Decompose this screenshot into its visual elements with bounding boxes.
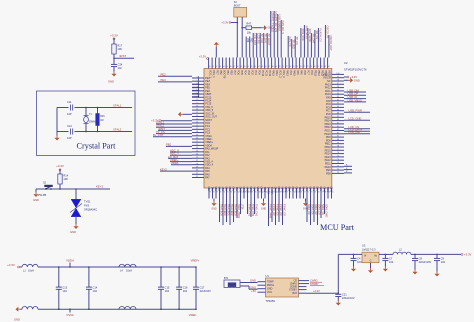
svg-text:220uF/16V: 220uF/16V: [342, 296, 355, 300]
svg-text:KEY1: KEY1: [96, 185, 104, 189]
svg-text:VDDA: VDDA: [171, 161, 179, 165]
svg-text:C16: C16: [183, 285, 188, 289]
svg-text:70: 70: [278, 66, 280, 68]
svg-text:32: 32: [196, 176, 198, 178]
svg-text:10K: 10K: [63, 177, 68, 181]
svg-text:PA10: PA10: [293, 70, 296, 76]
svg-text:104: 104: [441, 260, 446, 264]
svg-text:10k: 10k: [247, 30, 252, 34]
svg-text:PC8: PC8: [326, 106, 331, 109]
svg-text:TIM4_CH1: TIM4_CH1: [248, 204, 251, 217]
svg-text:87: 87: [337, 116, 339, 118]
svg-text:BL_CNT: BL_CNT: [153, 133, 164, 137]
svg-text:63: 63: [254, 66, 256, 68]
svg-text:73: 73: [289, 66, 291, 68]
svg-text:GND: GND: [261, 208, 267, 211]
svg-text:USB_PWR: USB_PWR: [349, 109, 362, 113]
svg-text:PB12: PB12: [325, 126, 332, 129]
svg-text:75: 75: [337, 156, 339, 158]
svg-text:78: 78: [337, 146, 339, 148]
svg-text:SWO_JTDO: SWO_JTDO: [237, 204, 240, 218]
svg-text:PC0: PC0: [205, 122, 210, 125]
svg-text:PC12: PC12: [261, 70, 264, 77]
svg-text:PD12: PD12: [240, 186, 243, 193]
svg-text:100: 100: [336, 73, 339, 75]
svg-text:69: 69: [275, 66, 277, 68]
svg-text:74: 74: [337, 159, 339, 161]
svg-text:51: 51: [212, 66, 214, 68]
svg-text:104: 104: [93, 289, 98, 293]
svg-text:96: 96: [337, 86, 339, 88]
svg-text:PC9: PC9: [313, 186, 316, 191]
svg-text:PE14: PE14: [325, 153, 332, 156]
svg-text:92: 92: [233, 192, 235, 194]
svg-text:PB4: PB4: [226, 70, 229, 75]
svg-text:XTAL2: XTAL2: [156, 124, 165, 128]
svg-text:57: 57: [233, 66, 235, 68]
svg-text:PA14: PA14: [275, 70, 278, 76]
svg-text:JTDI: JTDI: [241, 204, 244, 210]
svg-text:TP4056: TP4056: [266, 299, 276, 303]
svg-text:PROG: PROG: [267, 284, 274, 287]
svg-text:SDIO_D0: SDIO_D0: [307, 204, 310, 215]
svg-text:PD7: PD7: [233, 70, 236, 75]
svg-text:89: 89: [337, 109, 339, 111]
svg-text:+3.3V: +3.3V: [110, 34, 118, 38]
svg-text:67: 67: [321, 192, 323, 194]
svg-text:PA8: PA8: [317, 186, 320, 191]
svg-text:17: 17: [196, 128, 198, 130]
svg-text:PD11: PD11: [325, 130, 332, 133]
svg-text:TRACED2: TRACED2: [230, 204, 233, 216]
svg-text:C4: C4: [357, 257, 361, 261]
svg-text:10P: 10P: [67, 136, 72, 140]
svg-text:PC14: PC14: [205, 99, 212, 102]
svg-text:PD13: PD13: [243, 186, 246, 193]
svg-text:79: 79: [310, 66, 312, 68]
svg-text:GND: GND: [33, 198, 39, 202]
svg-text:VDD_2: VDD_2: [279, 70, 282, 79]
svg-text:97: 97: [337, 83, 339, 85]
svg-text:BOOT0: BOOT0: [223, 70, 226, 79]
svg-text:PE9: PE9: [326, 169, 331, 172]
svg-text:ADC_Y: ADC_Y: [170, 152, 179, 156]
svg-text:PC10: PC10: [268, 70, 271, 77]
svg-text:PB5: PB5: [215, 186, 218, 191]
svg-text:PE6: PE6: [205, 90, 210, 93]
svg-text:66: 66: [264, 66, 266, 68]
svg-text:76: 76: [337, 152, 339, 154]
svg-text:72: 72: [337, 165, 339, 167]
svg-text:60: 60: [243, 66, 245, 68]
svg-text:PC5: PC5: [257, 186, 260, 191]
svg-text:VSS_2: VSS_2: [282, 70, 285, 78]
svg-text:FSMC_NWE: FSMC_NWE: [269, 204, 272, 219]
svg-text:77: 77: [337, 149, 339, 151]
svg-text:GND: GND: [14, 318, 20, 322]
svg-text:+3.3V: +3.3V: [464, 253, 472, 257]
svg-text:SDIO_CMD: SDIO_CMD: [325, 204, 328, 217]
svg-text:VREF+: VREF+: [190, 258, 199, 262]
svg-text:STDBY: STDBY: [289, 289, 297, 292]
svg-text:86: 86: [254, 192, 256, 194]
svg-text:+3.3V: +3.3V: [350, 75, 357, 79]
svg-text:OSC_IN: OSC_IN: [205, 112, 214, 115]
svg-text:SDIO_D2: SDIO_D2: [314, 204, 317, 215]
svg-text:81: 81: [317, 66, 319, 68]
svg-text:104: 104: [62, 289, 67, 293]
svg-text:91: 91: [237, 192, 239, 194]
svg-text:PC11: PC11: [265, 70, 268, 77]
svg-text:FLASH_CS: FLASH_CS: [318, 29, 322, 42]
svg-text:90: 90: [337, 106, 339, 108]
svg-text:PA8: PA8: [326, 100, 331, 103]
svg-text:PA10: PA10: [324, 186, 327, 192]
svg-text:VREF+: VREF+: [170, 158, 179, 162]
svg-text:72: 72: [303, 192, 305, 194]
svg-text:VDDA: VDDA: [205, 144, 212, 147]
svg-text:PB0: PB0: [208, 186, 211, 191]
svg-text:XTAL1: XTAL1: [113, 103, 122, 107]
svg-text:70: 70: [310, 192, 312, 194]
svg-text:GND: GND: [267, 288, 273, 291]
svg-text:PB13: PB13: [321, 70, 324, 77]
svg-text:FSMC_D2: FSMC_D2: [279, 204, 282, 216]
svg-text:TP_CS: TP_CS: [295, 37, 299, 46]
svg-text:97: 97: [216, 192, 218, 194]
svg-text:10K: 10K: [117, 47, 122, 51]
svg-text:24: 24: [196, 150, 198, 152]
svg-text:98: 98: [337, 80, 339, 82]
svg-text:GND: GND: [108, 80, 114, 84]
svg-text:220uF/16V: 220uF/16V: [419, 260, 432, 264]
svg-text:76: 76: [299, 66, 301, 68]
svg-text:PB9: PB9: [229, 186, 232, 191]
svg-text:29: 29: [196, 167, 198, 169]
svg-text:73: 73: [337, 162, 339, 164]
svg-text:52: 52: [215, 66, 217, 68]
svg-text:PB3: PB3: [250, 38, 252, 43]
svg-text:BAT: BAT: [293, 292, 298, 295]
svg-text:83: 83: [337, 129, 339, 131]
svg-text:PD0: PD0: [258, 70, 261, 75]
svg-text:PA9: PA9: [320, 186, 323, 191]
svg-text:61: 61: [247, 66, 249, 68]
svg-text:BT1: BT1: [224, 277, 229, 280]
svg-text:104: 104: [165, 289, 170, 293]
svg-text:PD8: PD8: [289, 186, 292, 191]
svg-text:PC1: PC1: [205, 125, 210, 128]
svg-text:PC4: PC4: [254, 186, 257, 191]
svg-text:16: 16: [196, 125, 198, 127]
svg-text:C7: C7: [389, 257, 393, 261]
svg-text:74: 74: [292, 66, 294, 68]
svg-text:PD2: PD2: [251, 70, 254, 75]
svg-text:C9: C9: [441, 257, 445, 261]
svg-text:STM32F103VCT6: STM32F103VCT6: [344, 68, 367, 72]
svg-text:NC: NC: [327, 80, 331, 83]
svg-text:PA9: PA9: [326, 97, 331, 100]
svg-text:PB4: PB4: [246, 38, 248, 43]
svg-text:VREF-: VREF-: [189, 313, 197, 317]
svg-text:86: 86: [337, 119, 339, 121]
svg-text:SDIO_CK: SDIO_CK: [321, 204, 324, 215]
svg-text:94: 94: [226, 192, 228, 194]
svg-text:R16: R16: [100, 115, 105, 118]
svg-text:75: 75: [293, 192, 295, 194]
svg-text:ADC_X: ADC_X: [170, 148, 179, 152]
svg-text:PB7: PB7: [222, 186, 225, 191]
svg-text:PA13: PA13: [325, 83, 331, 86]
svg-text:13: 13: [196, 115, 198, 117]
svg-text:G: G: [370, 260, 372, 262]
svg-text:Crystal Part: Crystal Part: [77, 142, 117, 151]
svg-text:PD5: PD5: [240, 70, 243, 75]
svg-text:70: 70: [337, 172, 339, 174]
svg-text:26: 26: [196, 157, 198, 159]
svg-text:VDDA: VDDA: [66, 258, 74, 262]
svg-text:OSC32_OUT: OSC32_OUT: [329, 36, 333, 52]
svg-text:69: 69: [314, 192, 316, 194]
svg-text:TRACED0: TRACED0: [223, 204, 226, 216]
svg-text:C13: C13: [62, 285, 67, 289]
svg-text:PA4: PA4: [205, 167, 210, 170]
svg-text:PD15: PD15: [250, 186, 253, 193]
svg-text:PA12: PA12: [331, 186, 334, 192]
svg-text:PA0_WKUP: PA0_WKUP: [205, 148, 218, 151]
svg-text:30: 30: [196, 170, 198, 172]
svg-text:VDD_1: VDD_1: [209, 70, 212, 79]
svg-text:+3.3V: +3.3V: [221, 20, 228, 24]
svg-text:PD11: PD11: [299, 186, 302, 193]
svg-text:FSMC_D3: FSMC_D3: [283, 204, 286, 216]
svg-text:56: 56: [229, 66, 231, 68]
svg-text:94: 94: [337, 93, 339, 95]
svg-text:79: 79: [337, 142, 339, 144]
svg-text:11: 11: [196, 109, 198, 111]
svg-text:R17: R17: [117, 44, 122, 48]
svg-text:PE5: PE5: [205, 87, 210, 90]
svg-text:VREF+: VREF+: [205, 141, 214, 144]
svg-text:PE3: PE3: [205, 80, 210, 83]
svg-text:PE15: PE15: [325, 149, 332, 152]
svg-text:77: 77: [303, 66, 305, 68]
svg-text:BOOT: BOOT: [234, 5, 241, 8]
svg-text:PB11: PB11: [264, 186, 267, 192]
svg-text:PA9: PA9: [296, 70, 299, 75]
svg-text:PD8: PD8: [326, 139, 331, 142]
svg-text:PD10: PD10: [296, 186, 299, 193]
svg-text:99: 99: [337, 76, 339, 78]
svg-text:PC15: PC15: [205, 103, 212, 106]
svg-text:GND: GND: [211, 208, 217, 211]
svg-text:USB_DP: USB_DP: [348, 92, 359, 96]
svg-text:PC7: PC7: [326, 110, 331, 113]
svg-text:PD14: PD14: [247, 186, 250, 193]
svg-text:VDD_4: VDD_4: [205, 164, 214, 167]
svg-text:84: 84: [327, 66, 329, 68]
svg-text:LCD_GND: LCD_GND: [349, 117, 362, 121]
svg-text:19: 19: [196, 134, 198, 136]
svg-text:AD_BAT: AD_BAT: [168, 155, 179, 159]
svg-text:nRST: nRST: [158, 127, 165, 131]
svg-text:PB13: PB13: [325, 123, 332, 126]
svg-text:PA2: PA2: [205, 154, 210, 157]
svg-text:PW-PB: PW-PB: [38, 194, 46, 197]
svg-text:10uH: 10uH: [28, 270, 34, 273]
svg-text:FSMC_D1: FSMC_D1: [276, 204, 279, 216]
svg-text:PE1: PE1: [236, 186, 239, 191]
svg-text:PA3: PA3: [205, 157, 210, 160]
svg-text:TIM3_CH1: TIM3_CH1: [255, 204, 258, 217]
svg-text:PE3: PE3: [161, 78, 167, 82]
svg-text:PB15: PB15: [325, 116, 332, 119]
svg-text:GND: GND: [250, 285, 256, 289]
svg-text:68: 68: [271, 66, 273, 68]
svg-text:PD9: PD9: [292, 186, 295, 191]
svg-text:82: 82: [320, 66, 322, 68]
svg-text:NRST: NRST: [205, 119, 212, 122]
svg-text:22: 22: [196, 144, 198, 146]
svg-text:72: 72: [285, 66, 287, 68]
svg-text:1M: 1M: [100, 119, 103, 122]
svg-text:XTAL2: XTAL2: [113, 127, 122, 131]
svg-text:PA5: PA5: [205, 170, 210, 173]
svg-text:C17: C17: [200, 285, 205, 289]
svg-text:GND: GND: [70, 230, 76, 234]
svg-text:C14: C14: [93, 285, 98, 289]
svg-text:PB6: PB6: [219, 186, 222, 191]
svg-text:C24: C24: [118, 63, 123, 67]
svg-text:71: 71: [282, 66, 284, 68]
svg-text:68: 68: [317, 192, 319, 194]
svg-text:U1: U1: [266, 274, 270, 278]
svg-text:93: 93: [230, 192, 232, 194]
svg-text:15: 15: [196, 122, 198, 124]
svg-text:TEMP: TEMP: [267, 281, 274, 284]
svg-text:PC9: PC9: [289, 70, 292, 75]
svg-text:80: 80: [313, 66, 315, 68]
svg-text:VREF-: VREF-: [205, 138, 213, 141]
svg-text:10: 10: [196, 106, 198, 108]
svg-text:98: 98: [212, 192, 214, 194]
svg-text:81: 81: [337, 136, 339, 138]
svg-text:VSS_6: VSS_6: [328, 70, 331, 78]
svg-text:PB2: PB2: [219, 70, 222, 75]
svg-text:95: 95: [223, 192, 225, 194]
svg-text:VBAT: VBAT: [205, 93, 212, 96]
svg-text:PB12: PB12: [275, 186, 278, 193]
svg-text:71: 71: [307, 192, 309, 194]
svg-text:LM1117-3.3: LM1117-3.3: [362, 248, 376, 252]
svg-text:GND: GND: [354, 78, 360, 82]
svg-text:23: 23: [196, 147, 198, 149]
svg-text:+3.3V: +3.3V: [56, 164, 64, 168]
svg-text:10uH: 10uH: [126, 270, 132, 273]
svg-text:PC7: PC7: [306, 186, 309, 191]
svg-text:PA11: PA11: [325, 90, 331, 93]
svg-text:2: 2: [196, 80, 197, 82]
svg-text:104: 104: [183, 289, 188, 293]
svg-text:USB_ID: USB_ID: [348, 95, 358, 99]
svg-text:64: 64: [257, 66, 259, 68]
svg-text:VSS_5: VSS_5: [205, 106, 213, 109]
svg-text:PD10: PD10: [324, 133, 331, 136]
svg-text:PA15: PA15: [272, 70, 275, 76]
svg-text:R47: R47: [246, 22, 251, 26]
svg-text:54: 54: [222, 66, 224, 68]
svg-text:U3: U3: [362, 243, 366, 247]
svg-text:PA10: PA10: [325, 93, 331, 96]
svg-text:71: 71: [337, 169, 339, 171]
svg-text:PC8: PC8: [310, 186, 313, 191]
svg-text:OSC_OUT: OSC_OUT: [205, 116, 217, 119]
svg-text:PD3: PD3: [247, 70, 250, 75]
svg-text:10n: 10n: [118, 66, 123, 70]
svg-text:PC13: PC13: [205, 96, 212, 99]
svg-text:PA6: PA6: [205, 173, 210, 176]
svg-text:82: 82: [337, 132, 339, 134]
svg-text:nRST: nRST: [119, 54, 126, 58]
svg-text:65: 65: [261, 66, 263, 68]
svg-text:62: 62: [250, 66, 252, 68]
svg-text:18: 18: [196, 131, 198, 133]
svg-text:PB8: PB8: [226, 186, 229, 191]
svg-text:PA12: PA12: [325, 87, 331, 90]
svg-text:VSSA: VSSA: [66, 313, 74, 317]
svg-text:C12: C12: [67, 124, 72, 128]
svg-text:+3.3V: +3.3V: [199, 55, 206, 59]
svg-text:PE4: PE4: [205, 83, 210, 86]
svg-text:78: 78: [306, 66, 308, 68]
svg-text:PB10: PB10: [325, 146, 332, 149]
svg-text:PVS: PVS: [84, 204, 89, 208]
svg-text:PC6: PC6: [303, 186, 306, 191]
svg-text:VCC: VCC: [267, 291, 272, 294]
svg-text:STDBY: STDBY: [310, 282, 319, 286]
svg-text:CAN_RX_S: CAN_RX_S: [281, 21, 285, 35]
svg-text:PC8: PC8: [303, 70, 306, 75]
svg-text:28: 28: [196, 163, 198, 165]
svg-text:20: 20: [196, 138, 198, 140]
svg-text:PE7: PE7: [216, 70, 219, 75]
svg-text:9: 9: [196, 102, 197, 104]
svg-text:58: 58: [236, 66, 238, 68]
svg-text:PC7: PC7: [307, 70, 310, 75]
svg-text:85: 85: [337, 123, 339, 125]
svg-text:84: 84: [337, 126, 339, 128]
svg-text:PE2: PE2: [161, 72, 167, 76]
svg-text:104: 104: [389, 260, 394, 264]
svg-text:PB15: PB15: [314, 70, 317, 77]
svg-text:85: 85: [258, 192, 260, 194]
svg-text:C8: C8: [419, 257, 423, 261]
svg-text:PC6: PC6: [326, 113, 331, 116]
svg-text:21: 21: [196, 141, 198, 143]
svg-text:PB1: PB1: [212, 186, 215, 191]
svg-text:MCU Part: MCU Part: [320, 223, 355, 232]
svg-text:+4.2V: +4.2V: [313, 289, 320, 293]
svg-text:PB10: PB10: [261, 186, 264, 193]
svg-text:R14: R14: [63, 174, 68, 178]
svg-text:PA8: PA8: [300, 70, 303, 75]
svg-text:99: 99: [209, 192, 211, 194]
svg-text:104: 104: [357, 260, 362, 264]
svg-text:SR18A04C: SR18A04C: [84, 208, 97, 212]
svg-text:USB_VBUS: USB_VBUS: [348, 98, 363, 102]
svg-text:VDD_5: VDD_5: [205, 109, 214, 112]
svg-text:PE10: PE10: [325, 166, 332, 169]
